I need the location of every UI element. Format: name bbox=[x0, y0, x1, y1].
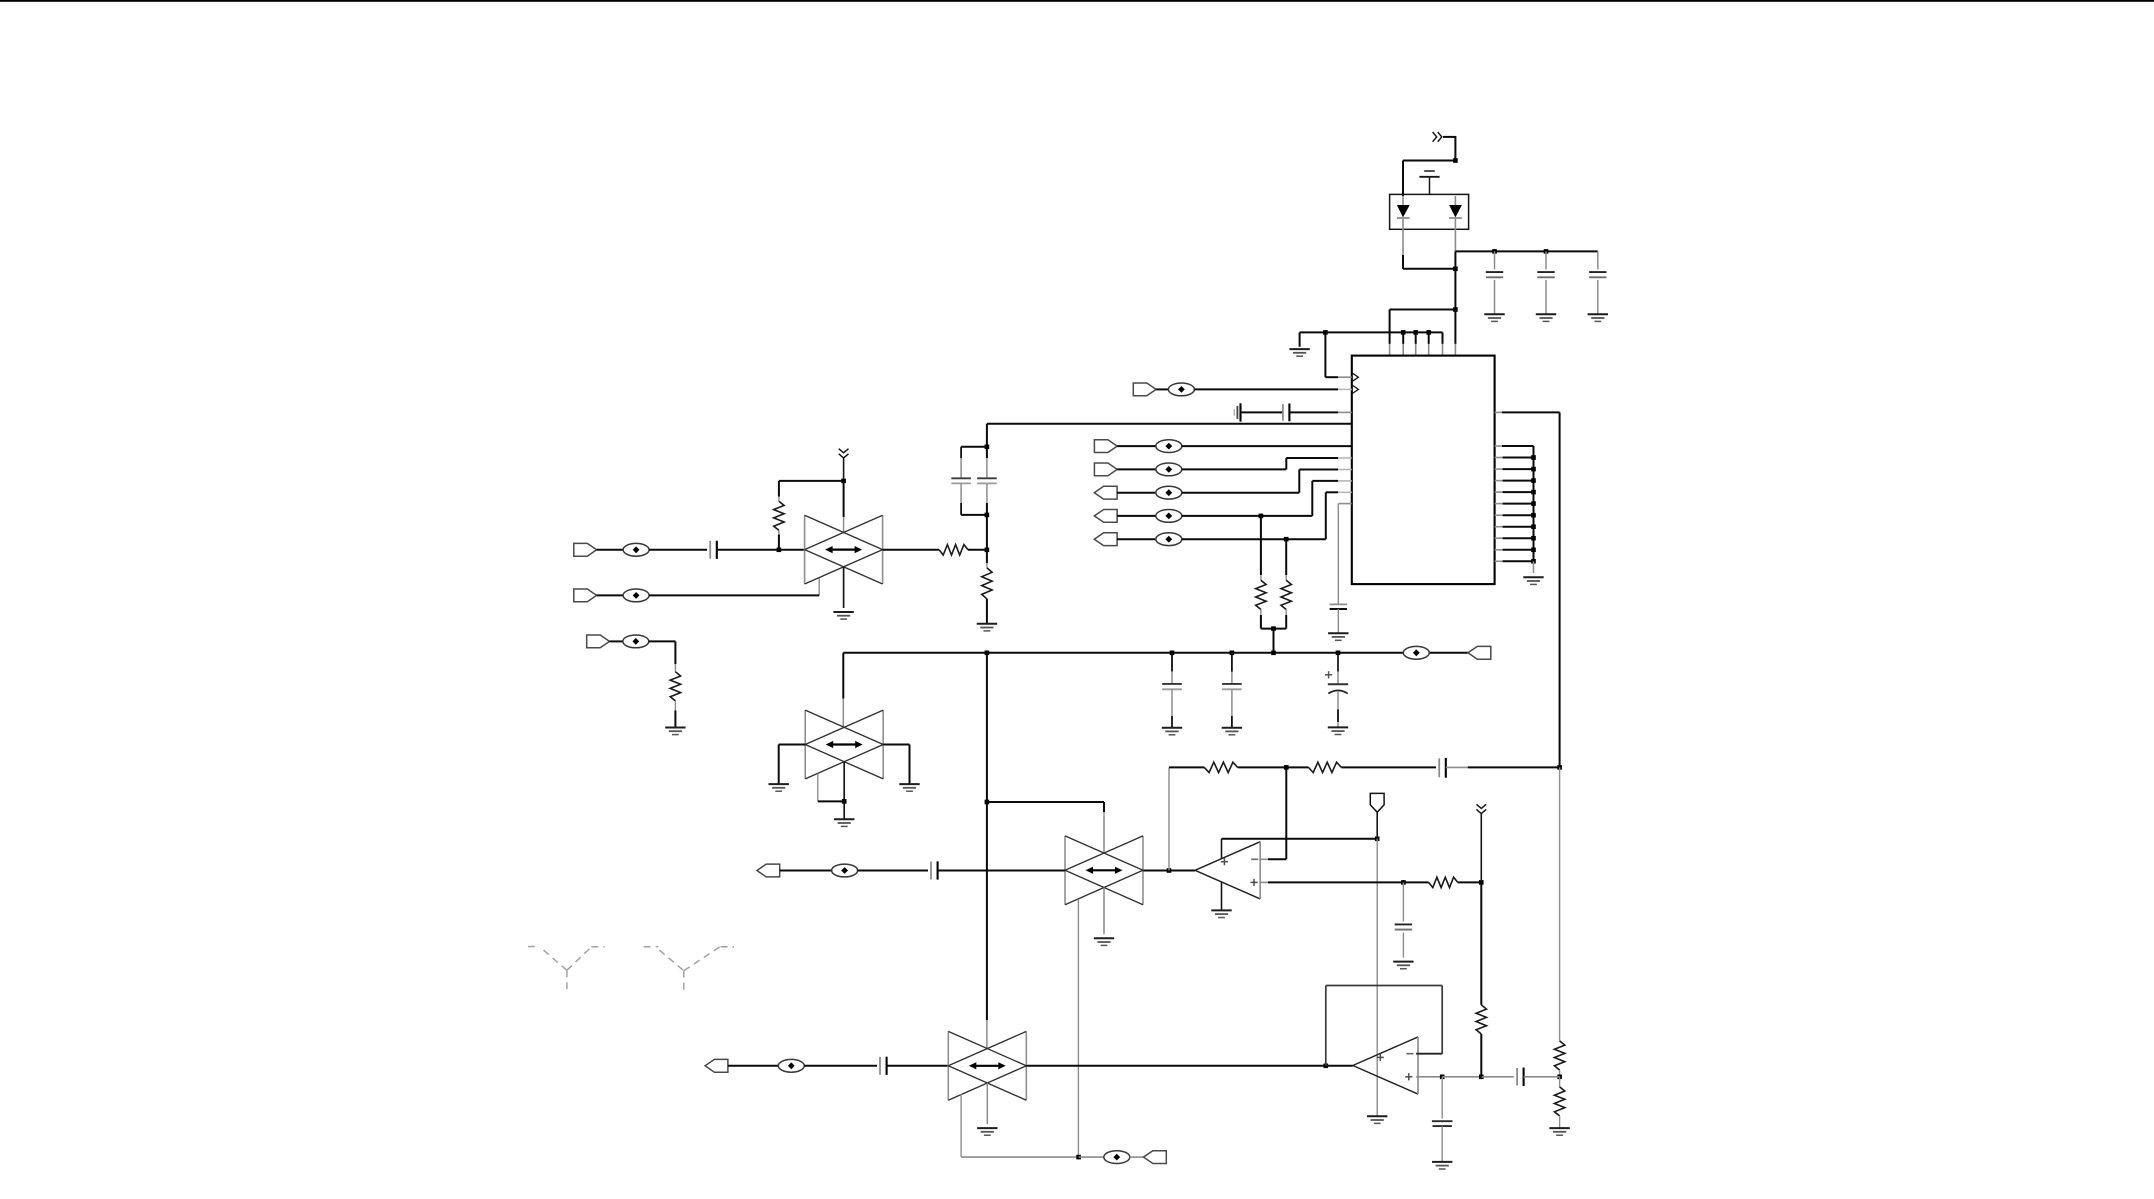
wire bbox=[1238, 766, 1287, 768]
wire bbox=[1130, 1156, 1144, 1158]
wire cap bracket top bbox=[961, 446, 987, 448]
wire bbox=[1289, 411, 1351, 413]
wire IC pin row 8 bbox=[1495, 526, 1534, 528]
dual diode package D1 bbox=[1390, 194, 1469, 255]
transient suppressor T2 bbox=[805, 710, 883, 779]
capacitor C12 bbox=[931, 861, 938, 879]
IC U1 bbox=[1352, 356, 1495, 584]
wire bbox=[1481, 1076, 1514, 1078]
ferrite bead FB4 bbox=[1156, 486, 1182, 499]
wire bbox=[1169, 870, 1195, 872]
wire bbox=[1389, 310, 1391, 356]
node junction bbox=[1453, 307, 1458, 312]
output connector OUT3 bbox=[1094, 533, 1117, 546]
wire bbox=[1117, 445, 1156, 447]
ferrite bead FB10 bbox=[623, 635, 649, 648]
power input off-page connector >> bbox=[1433, 132, 1456, 142]
wire T2 gate bbox=[818, 774, 844, 802]
ground bbox=[769, 784, 789, 791]
input connector OSC bbox=[1133, 383, 1156, 396]
wire bbox=[1117, 492, 1156, 494]
node junction bbox=[1544, 249, 1549, 254]
capacitor C6 bbox=[1162, 653, 1182, 728]
wire long feedback row bbox=[987, 423, 1352, 425]
wire node N1 vertical bbox=[986, 424, 988, 550]
wire bbox=[843, 567, 845, 608]
resistor R6 pulldown bbox=[670, 664, 680, 728]
node junction bbox=[1401, 330, 1406, 335]
resistor R3 pullup bbox=[1281, 539, 1291, 628]
wire bbox=[1182, 470, 1352, 493]
wire bbox=[1273, 629, 1275, 653]
wire to T3 anode bbox=[987, 802, 1104, 853]
power net arrow 2 bbox=[1476, 804, 1486, 880]
node junction bbox=[1323, 330, 1328, 335]
wire bbox=[1533, 561, 1535, 573]
wire bbox=[1182, 445, 1352, 447]
node junction bbox=[1324, 1064, 1329, 1069]
ground bbox=[1536, 314, 1556, 321]
polarized capacitor C8 bbox=[1325, 653, 1348, 728]
node junction bbox=[1336, 651, 1341, 656]
resistor R11 bbox=[1554, 1041, 1564, 1077]
wire IC pin to bypass cap bbox=[1338, 504, 1352, 604]
capacitor C9 bbox=[710, 541, 717, 559]
node junction bbox=[1453, 267, 1458, 272]
ferrite bead FB12 bbox=[778, 1059, 804, 1072]
wire IC pin row 4 bbox=[1495, 480, 1534, 482]
wire bbox=[649, 641, 676, 664]
output connector OUT1 bbox=[1094, 486, 1117, 499]
power net arrow bbox=[839, 449, 849, 479]
wire bbox=[1117, 468, 1156, 470]
ground bbox=[1588, 314, 1608, 321]
wire bbox=[843, 801, 845, 819]
wire bbox=[1182, 481, 1352, 516]
node junction bbox=[1531, 490, 1536, 495]
wire bbox=[1169, 766, 1204, 768]
wire bbox=[728, 1065, 779, 1067]
capacitor C11 bbox=[977, 478, 997, 483]
ground bbox=[1094, 938, 1114, 945]
node junction bbox=[777, 548, 782, 553]
wire clock pin 1 bbox=[1325, 376, 1351, 378]
node junction bbox=[1531, 536, 1536, 541]
wire bbox=[1182, 492, 1352, 539]
node junction bbox=[842, 799, 847, 804]
node junction bbox=[985, 445, 990, 450]
ferrite bead FB1 bbox=[1168, 383, 1194, 396]
capacitor C16 bbox=[1517, 1068, 1524, 1086]
node junction bbox=[1167, 868, 1172, 873]
resistor R4 bbox=[774, 481, 784, 550]
wire U2 inverting input bbox=[1260, 767, 1286, 859]
wire clock pin 2 bbox=[1194, 388, 1351, 390]
wire bbox=[597, 594, 624, 596]
wire bbox=[779, 549, 805, 551]
wire pin stub bbox=[1415, 332, 1417, 355]
wire bbox=[1390, 309, 1456, 311]
wire right bus bracket bbox=[1495, 446, 1534, 561]
top border bar bbox=[0, 0, 2154, 2]
ferrite bead FB11 bbox=[832, 864, 858, 877]
node junction bbox=[1479, 1075, 1484, 1080]
resistor R8 bbox=[1403, 877, 1481, 887]
wire bbox=[649, 549, 707, 551]
node junction bbox=[1531, 524, 1536, 529]
op-amp U3 minus label bbox=[1406, 1053, 1413, 1055]
node junction bbox=[1401, 880, 1406, 885]
output connector B2 bbox=[705, 1059, 728, 1072]
input connector A3 bbox=[587, 635, 610, 648]
node junction bbox=[1531, 478, 1536, 483]
node junction bbox=[1557, 765, 1562, 770]
wire U2 noninverting input bbox=[1260, 881, 1403, 883]
wire IC right output bbox=[1495, 411, 1560, 413]
wire bbox=[780, 870, 833, 872]
node junction bbox=[1531, 559, 1536, 564]
ground bbox=[1328, 633, 1348, 640]
node junction bbox=[1284, 765, 1289, 770]
wire pin stub bbox=[1402, 332, 1404, 355]
transient suppressor T4 bbox=[948, 1031, 1026, 1100]
node junction bbox=[1271, 626, 1276, 631]
wire pin stub bbox=[1428, 332, 1430, 355]
wire IC pin row 11 bbox=[1495, 560, 1534, 562]
wire bbox=[610, 640, 623, 642]
ferrite bead FB7 bbox=[1403, 646, 1429, 659]
wire T4 anode lead bbox=[986, 1020, 988, 1049]
capacitor C7 bbox=[1222, 653, 1242, 728]
node junction bbox=[1492, 249, 1497, 254]
node junction bbox=[1479, 880, 1484, 885]
wire U2 ground pin bbox=[1221, 882, 1223, 910]
node junction bbox=[1170, 651, 1175, 656]
wire decoupling rail bbox=[1455, 250, 1597, 252]
capacitor C3 bbox=[1589, 251, 1606, 314]
wire bbox=[1403, 161, 1455, 197]
wire bbox=[938, 870, 1065, 872]
wire bbox=[779, 480, 844, 482]
net flag symbol bbox=[1370, 793, 1384, 838]
ground bbox=[1328, 727, 1348, 734]
wire bbox=[1454, 136, 1456, 161]
wire bbox=[1524, 1076, 1560, 1078]
resistor R9 bbox=[1204, 762, 1237, 772]
node junction bbox=[841, 479, 846, 484]
wire T3 to U2 bbox=[1143, 870, 1169, 872]
op-amp U2 plus label bbox=[1250, 879, 1257, 886]
resonator element bbox=[1234, 403, 1240, 421]
wire bbox=[1446, 766, 1560, 768]
resistor R7 bbox=[982, 550, 992, 624]
wire bbox=[1103, 888, 1105, 935]
wire bbox=[1079, 1156, 1104, 1158]
ground bbox=[1222, 728, 1242, 735]
resistor R2 pullup bbox=[1256, 516, 1266, 629]
ferrite bead FB13 bbox=[1104, 1151, 1130, 1164]
ground bbox=[1432, 1162, 1452, 1169]
node junction bbox=[1284, 537, 1289, 542]
node junction bbox=[1440, 1075, 1445, 1080]
node junction bbox=[1531, 501, 1536, 506]
wire bbox=[887, 1065, 949, 1067]
capacitor C5 bbox=[1330, 604, 1347, 633]
ferrite bead FB6 bbox=[1156, 533, 1182, 546]
ground bbox=[1289, 332, 1309, 356]
op-amp U2 bbox=[1195, 842, 1260, 899]
wire U3 feedback loop bbox=[1326, 986, 1442, 1066]
wire bbox=[597, 549, 624, 551]
wire bbox=[1324, 332, 1326, 377]
wire pin stub bbox=[1442, 332, 1444, 355]
node junction bbox=[985, 548, 990, 553]
input connector A1 bbox=[574, 543, 597, 556]
output connector OUT2 bbox=[1094, 510, 1117, 523]
wire T4 to U3 bbox=[1026, 1065, 1326, 1067]
node junction bbox=[1413, 330, 1418, 335]
output connector B1 bbox=[757, 864, 780, 877]
capacitor C2 bbox=[1537, 251, 1554, 314]
ground bbox=[1523, 577, 1543, 584]
watermark Y figure 2 bbox=[644, 947, 734, 994]
wire bbox=[1182, 458, 1352, 469]
wire bbox=[1261, 628, 1286, 630]
wire bbox=[1442, 1076, 1481, 1078]
wire IC pin row 2 bbox=[1495, 457, 1534, 459]
wire bbox=[1326, 1065, 1353, 1067]
wire VDD to T2 bbox=[842, 653, 844, 728]
wire bbox=[986, 1083, 988, 1124]
input connector IN1 bbox=[1094, 440, 1117, 453]
op-amp U3 plus label bbox=[1405, 1073, 1412, 1080]
node junction bbox=[1531, 513, 1536, 518]
resistor R5 output bbox=[883, 545, 987, 555]
wire to IC pin bbox=[1454, 310, 1456, 356]
node junction bbox=[1259, 514, 1264, 519]
watermark Y figure 1 bbox=[528, 947, 605, 994]
node junction bbox=[1426, 330, 1431, 335]
wire VDD vertical bbox=[986, 653, 988, 1020]
op-amp U3 bbox=[1353, 1037, 1418, 1094]
wire cap bracket bottom bbox=[961, 514, 987, 516]
wire IC pin row 3 bbox=[1495, 468, 1534, 470]
node junction bbox=[1531, 548, 1536, 553]
ground bbox=[834, 819, 854, 826]
capacitor C13 bbox=[1395, 882, 1412, 957]
node junction bbox=[985, 800, 990, 805]
ground bbox=[1367, 1116, 1387, 1123]
ground bbox=[1484, 314, 1504, 321]
ground bbox=[899, 784, 919, 791]
node junction bbox=[1271, 651, 1276, 656]
ferrite bead FB8 bbox=[623, 543, 649, 556]
IC top supply bus bbox=[1300, 331, 1443, 333]
wire bbox=[1454, 251, 1456, 309]
output connector VDD bbox=[1468, 646, 1491, 659]
capacitor C4 bbox=[1283, 404, 1290, 422]
ground bbox=[833, 612, 853, 619]
wire right net vertical bbox=[1559, 412, 1561, 767]
wire bbox=[1241, 411, 1283, 413]
node junction bbox=[985, 513, 990, 518]
resistor R12 bbox=[1554, 1077, 1564, 1128]
wire T2 left lead bbox=[779, 745, 806, 785]
wire U3 noninverting input bbox=[1416, 1076, 1442, 1078]
wire bbox=[1403, 255, 1455, 269]
node junction bbox=[1230, 651, 1235, 656]
ferrite bead FB9 bbox=[623, 589, 649, 602]
chassis ground symbol bbox=[1419, 171, 1439, 194]
ferrite bead FB2 bbox=[1156, 440, 1182, 453]
wire U2 power pin bbox=[1221, 839, 1223, 859]
wire IC pin row 10 bbox=[1495, 549, 1534, 551]
op-amp U2 vplus label bbox=[1221, 858, 1228, 865]
resistor R13 bbox=[1476, 882, 1486, 1076]
ground bbox=[1549, 1128, 1569, 1135]
wire T2 right lead bbox=[883, 745, 909, 785]
capacitor C17 bbox=[1432, 1077, 1453, 1162]
node junction bbox=[1076, 1155, 1081, 1160]
wire bbox=[717, 549, 779, 551]
wire bbox=[1156, 388, 1168, 390]
node junction bbox=[1531, 467, 1536, 472]
wire IC pin row 6 bbox=[1495, 503, 1534, 505]
node junction bbox=[1531, 455, 1536, 460]
node junction bbox=[1375, 837, 1380, 842]
transient suppressor T1 bbox=[805, 515, 883, 584]
wire bbox=[843, 481, 845, 533]
input connector IN2 bbox=[1094, 463, 1117, 476]
wire T1 gate bbox=[818, 578, 820, 595]
ground bbox=[1162, 728, 1182, 735]
input connector A2 bbox=[574, 589, 597, 602]
node junction bbox=[1453, 158, 1458, 163]
ground bbox=[977, 624, 997, 631]
wire bbox=[649, 594, 819, 596]
wire T2 cathode bbox=[843, 762, 845, 802]
wire IC pin row 9 bbox=[1495, 537, 1534, 539]
wire bbox=[1117, 538, 1156, 540]
wire bbox=[804, 1065, 877, 1067]
wire bbox=[1559, 767, 1561, 1041]
wire feedback from U2 output bbox=[1168, 767, 1170, 870]
wire T4 gate bbox=[961, 1094, 1079, 1157]
ground bbox=[665, 728, 685, 735]
wire T3 gate bbox=[1077, 899, 1079, 1157]
node junction bbox=[985, 651, 990, 656]
capacitor C14 bbox=[1439, 758, 1446, 778]
capacitor C1 bbox=[1486, 251, 1503, 314]
capacitor C10 bbox=[951, 447, 971, 515]
wire bbox=[858, 870, 928, 872]
transient suppressor T3 bbox=[1065, 836, 1143, 905]
ground bbox=[1211, 910, 1231, 917]
node junction bbox=[1557, 1075, 1562, 1080]
ground bbox=[1393, 962, 1413, 969]
wire flag net vertical bbox=[1376, 839, 1378, 1117]
wire bbox=[1117, 515, 1156, 517]
op-amp U2 minus label bbox=[1251, 858, 1258, 860]
op-amp U3 vplus label bbox=[1377, 1054, 1384, 1061]
output connector B3 bbox=[1144, 1151, 1167, 1164]
ground bbox=[977, 1128, 997, 1135]
ferrite bead FB5 bbox=[1156, 510, 1182, 523]
wire IC pin row 5 bbox=[1495, 491, 1534, 493]
capacitor C15 bbox=[880, 1057, 887, 1075]
wire U2 power to flag net bbox=[1222, 838, 1378, 840]
wire IC pin row 7 bbox=[1495, 514, 1534, 516]
VDD bus wire bbox=[843, 652, 1468, 654]
resistor R10 bbox=[1286, 762, 1436, 772]
ferrite bead FB3 bbox=[1156, 463, 1182, 476]
